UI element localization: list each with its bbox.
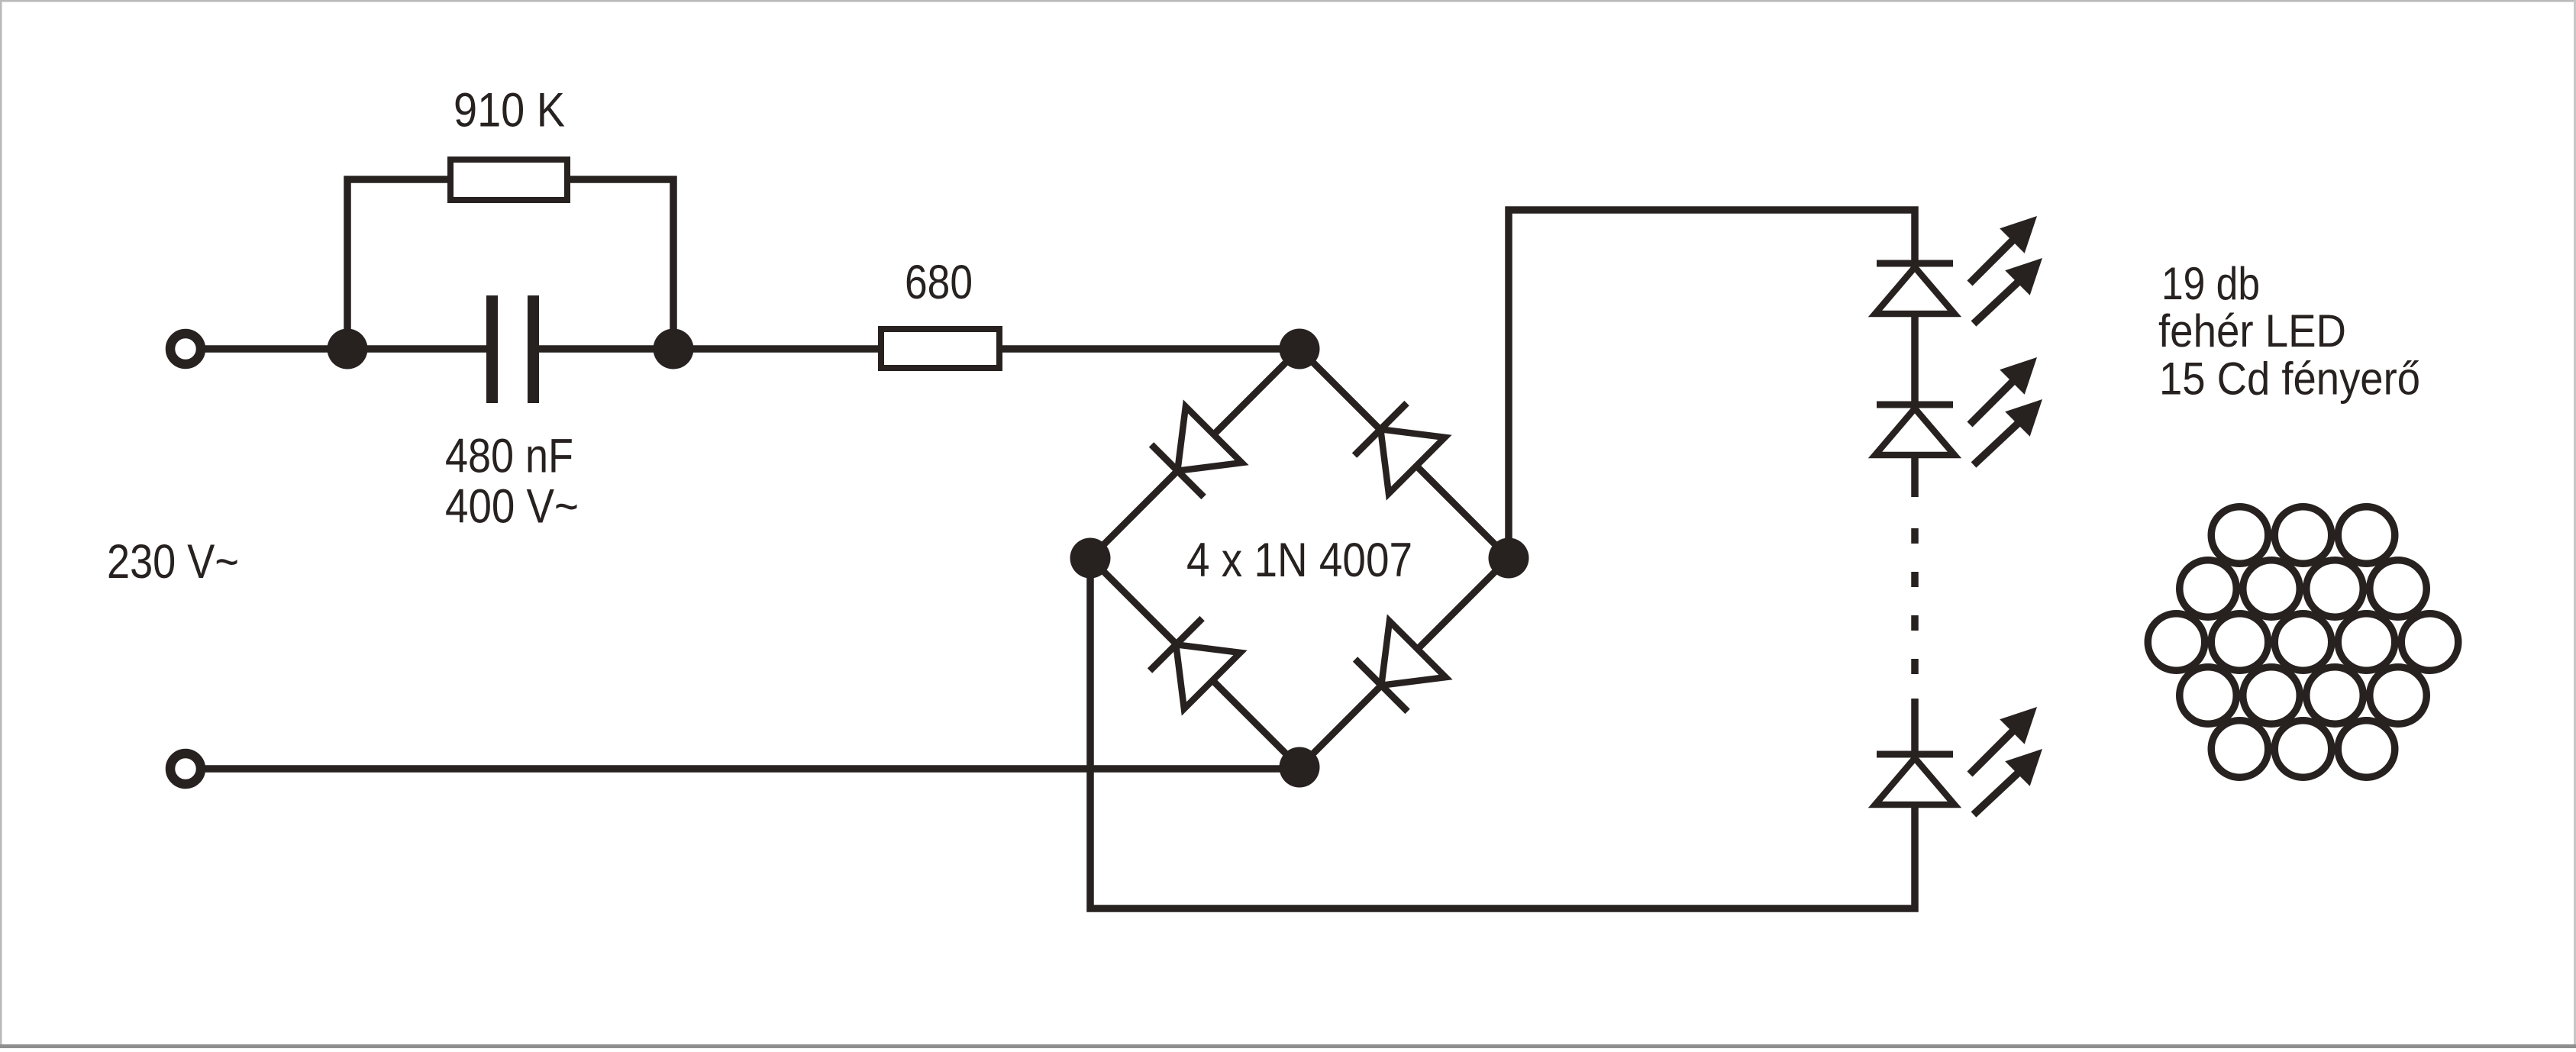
svg-text:910 K: 910 K bbox=[454, 84, 565, 137]
svg-text:4 x 1N 4007: 4 x 1N 4007 bbox=[1186, 534, 1412, 587]
svg-text:fehér LED: fehér LED bbox=[2158, 305, 2346, 357]
svg-text:15 Cd fényerő: 15 Cd fényerő bbox=[2159, 353, 2420, 405]
svg-text:19 db: 19 db bbox=[2161, 258, 2260, 309]
svg-text:400 V~: 400 V~ bbox=[445, 480, 579, 534]
svg-text:680: 680 bbox=[905, 256, 973, 309]
svg-text:480 nF: 480 nF bbox=[445, 430, 573, 483]
svg-text:230 V~: 230 V~ bbox=[107, 535, 239, 589]
